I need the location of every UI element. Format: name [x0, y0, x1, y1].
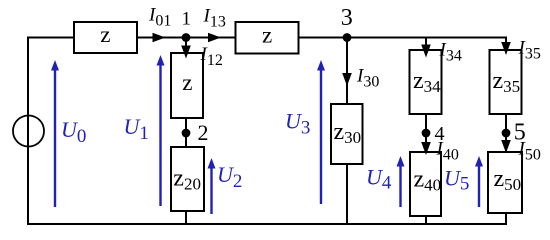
voltage arrow U4	[397, 156, 405, 207]
wire left vertical through source	[27, 37, 29, 225]
current arrow I30	[342, 73, 352, 86]
svg-text:1: 1	[182, 9, 192, 30]
wire z35 to node5 and z50	[505, 114, 507, 153]
wire node3 to z30	[346, 38, 348, 106]
wire top tee to z34	[425, 38, 427, 52]
wire z30 to bottom	[346, 164, 348, 224]
node 2 junction dot	[182, 129, 191, 138]
voltage arrow U0	[51, 60, 59, 207]
resistor z20	[171, 147, 204, 211]
svg-text:2: 2	[198, 120, 209, 145]
current arrow I12	[181, 46, 191, 59]
resistor z (series 0-1)	[74, 22, 137, 53]
voltage arrow U5	[475, 156, 483, 207]
wire z50 to bottom	[505, 213, 507, 224]
current arrow I34	[421, 45, 431, 58]
svg-text:z: z	[100, 22, 110, 47]
svg-text:4: 4	[435, 123, 445, 145]
wire top corner to z35	[505, 37, 507, 52]
current arrow I13	[208, 33, 221, 43]
resistor z40	[410, 152, 441, 216]
wire node1 to z12	[185, 38, 187, 55]
resistor z (series 1-3)	[236, 22, 299, 54]
current arrow I50	[501, 140, 511, 153]
resistor z50	[488, 152, 522, 213]
current arrow I35	[501, 42, 511, 55]
svg-text:5: 5	[514, 120, 526, 146]
resistor z34	[410, 50, 442, 114]
voltage arrow U1	[157, 55, 165, 206]
node 3 junction dot	[343, 33, 352, 42]
current arrow I40	[421, 142, 431, 155]
resistor z (branch 1-2)	[171, 53, 203, 118]
wire bottom return	[27, 223, 507, 225]
voltage arrow U2	[208, 158, 216, 214]
svg-text:3: 3	[341, 5, 353, 31]
current arrow I01	[153, 33, 166, 43]
voltage source U0 circle	[13, 116, 44, 147]
node 1 junction dot	[182, 33, 191, 42]
resistor z35	[490, 50, 522, 114]
resistor z30	[331, 104, 363, 164]
wire top segment middle (z01 to z13 through node 1)	[136, 37, 236, 39]
node 5 junction dot	[502, 129, 511, 138]
wire z20 to bottom	[185, 211, 187, 224]
wire z34 to node4 and z40	[425, 114, 427, 153]
wire z40 to bottom	[425, 216, 427, 224]
wire z12 to node 2 and z20	[185, 118, 187, 148]
svg-text:z: z	[262, 23, 272, 48]
wire top segment right (z13 to corner above z35)	[298, 37, 506, 39]
svg-text:z: z	[182, 70, 192, 95]
wire top segment left (source to z01)	[27, 37, 75, 39]
voltage arrow U3	[317, 60, 325, 204]
node 4 junction dot	[422, 129, 431, 138]
